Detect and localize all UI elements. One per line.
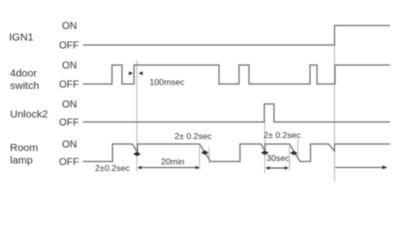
svg-text:20min: 20min [161, 156, 185, 166]
svg-text:ON: ON [62, 21, 77, 32]
svg-text:2±0.2sec: 2±0.2sec [95, 163, 131, 173]
svg-text:30sec: 30sec [267, 153, 291, 163]
svg-text:ON: ON [62, 140, 77, 151]
svg-text:OFF: OFF [59, 157, 79, 168]
svg-text:OFF: OFF [59, 118, 79, 129]
svg-text:ON: ON [62, 100, 77, 111]
svg-text:lamp: lamp [10, 155, 33, 167]
svg-text:2± 0.2sec: 2± 0.2sec [264, 130, 302, 140]
svg-text:Unlock2: Unlock2 [10, 109, 48, 121]
svg-text:4door: 4door [10, 68, 37, 80]
svg-text:ON: ON [62, 61, 77, 72]
svg-text:100msec: 100msec [150, 77, 186, 87]
svg-text:switch: switch [10, 80, 39, 92]
svg-text:IGN1: IGN1 [9, 32, 34, 44]
svg-text:2± 0.2sec: 2± 0.2sec [175, 131, 213, 141]
svg-text:OFF: OFF [59, 41, 79, 52]
svg-text:OFF: OFF [59, 80, 79, 91]
svg-text:Room: Room [10, 142, 38, 154]
